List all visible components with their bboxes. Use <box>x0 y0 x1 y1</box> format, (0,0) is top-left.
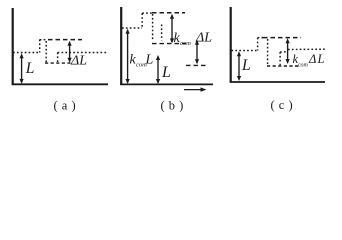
arrow kdL (c) <box>287 40 289 63</box>
level line left (c) <box>232 50 257 52</box>
box left vertical (a) <box>45 41 47 63</box>
wall (b) <box>120 7 122 85</box>
ground (c) <box>230 81 325 83</box>
box bottom dashes (a) <box>45 62 71 64</box>
ground (a) <box>12 83 108 85</box>
svg-text:com: com <box>180 40 191 47</box>
step vertical (b) <box>141 13 143 28</box>
dashed line mid (b) <box>152 43 186 45</box>
dashed line low (b) <box>186 64 206 66</box>
box left vertical (b) <box>152 14 154 41</box>
ground (b) <box>120 83 213 85</box>
wall (c) <box>230 7 232 83</box>
level dotted (b) <box>122 27 142 29</box>
step vertical (a) <box>39 40 41 53</box>
arrow kdL (b) <box>171 16 173 43</box>
svg-text:( a ): ( a ) <box>54 99 77 113</box>
step top dotted (b) <box>142 12 152 14</box>
arrow L (b) <box>157 57 159 83</box>
level line left (a) <box>13 52 39 54</box>
box bottom dashes (c) <box>267 65 300 67</box>
svg-text:com: com <box>298 63 309 69</box>
step top dotted (c) <box>258 37 263 39</box>
box right vertical (c) <box>279 52 281 65</box>
svg-text:L: L <box>25 60 35 77</box>
svg-text:L: L <box>161 64 171 81</box>
dashed level (c) <box>263 37 301 39</box>
box left vertical (c) <box>267 39 269 65</box>
dashed level (a) <box>48 39 82 41</box>
svg-text:L: L <box>317 52 325 66</box>
dashed top level (b) <box>152 12 185 14</box>
box right vertical (b) <box>161 25 163 41</box>
svg-text:Δ: Δ <box>308 52 316 66</box>
step top dotted (a) <box>40 39 48 41</box>
svg-text:ΔL: ΔL <box>70 54 87 69</box>
arrow L (a) <box>21 55 23 83</box>
svg-text:( c ): ( c ) <box>271 98 294 112</box>
wall (a) <box>12 8 14 85</box>
svg-text:( b ): ( b ) <box>161 99 184 113</box>
arrow dL (a) <box>69 43 71 62</box>
box right vertical (a) <box>57 53 59 63</box>
motion arrow (b) <box>184 89 204 91</box>
arrow com-drop (b) <box>196 42 198 63</box>
arrow L (c) <box>238 53 240 80</box>
step vertical (c) <box>257 38 259 51</box>
svg-text:ΔL: ΔL <box>195 31 212 46</box>
level line right (c) <box>280 51 288 53</box>
svg-text:L: L <box>241 57 251 74</box>
arrow kL (b) <box>127 31 129 83</box>
svg-text:L: L <box>145 53 154 68</box>
level line right (a) <box>58 52 107 54</box>
